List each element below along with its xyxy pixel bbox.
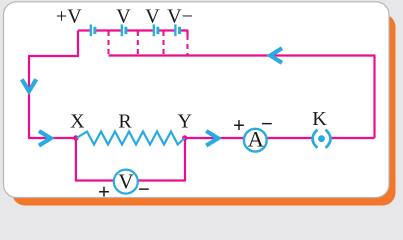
wire between cell 3 and cell 4: [159, 29, 175, 31]
svg-text:−: −: [138, 177, 150, 201]
battery cell 4 plates: [175, 24, 179, 36]
node Y junction dot: [182, 135, 187, 140]
dashed tap wire 4: [187, 35, 189, 56]
white card panel: [4, 2, 390, 198]
battery cell 1 plates: [91, 24, 95, 36]
arrow right (after Y): [206, 131, 218, 146]
wire from cell 4 to corner, down stub: [181, 31, 188, 37]
svg-text:Y: Y: [177, 110, 191, 132]
voltmeter V circle: [114, 170, 138, 194]
battery cell 2 plates: [122, 24, 126, 36]
ammeter A circle: [244, 129, 267, 152]
wire from key to right corner: [331, 137, 375, 139]
svg-text:V−: V−: [167, 5, 193, 27]
key K symbol: left arc: [313, 130, 318, 148]
key contact dot: [318, 135, 325, 142]
svg-text:K: K: [312, 108, 327, 130]
dashed tap wire 1: [108, 31, 110, 56]
svg-text:V: V: [145, 5, 160, 27]
svg-text:V: V: [118, 170, 133, 194]
arrow down (left wire): [22, 79, 36, 91]
svg-text:R: R: [118, 110, 132, 132]
svg-text:+: +: [233, 113, 245, 137]
wire return line: right vertical up and left to battery tap: [109, 56, 375, 139]
dashed tap wire 2: [137, 31, 139, 56]
dashed tap wire 3: [163, 31, 165, 56]
orange accent rounded rectangle: [12, 14, 396, 206]
svg-text:+V: +V: [56, 5, 82, 27]
battery cell 3 plates: [154, 24, 158, 36]
svg-text:V: V: [116, 5, 131, 27]
wire battery top: +V lead into cell 1: [78, 29, 90, 31]
wire middle row: X through R, ammeter to right vertical: [185, 137, 312, 139]
resistor R zigzag: [77, 132, 185, 145]
key K symbol: right arc: [326, 130, 331, 148]
wire between cell 1 and cell 2: [96, 29, 121, 31]
svg-text:−: −: [261, 111, 273, 135]
wire voltmeter branch from X down, across, up to Y: [76, 138, 185, 181]
arrow right (before X): [39, 131, 51, 146]
svg-text:X: X: [70, 110, 85, 132]
wire left side: battery + terminal down, left, down to resistor row: [29, 31, 78, 139]
node X junction dot: [73, 135, 78, 140]
svg-text:+: +: [98, 180, 110, 204]
wire between cell 2 and cell 3: [127, 29, 153, 31]
arrow left (return line): [270, 48, 282, 63]
